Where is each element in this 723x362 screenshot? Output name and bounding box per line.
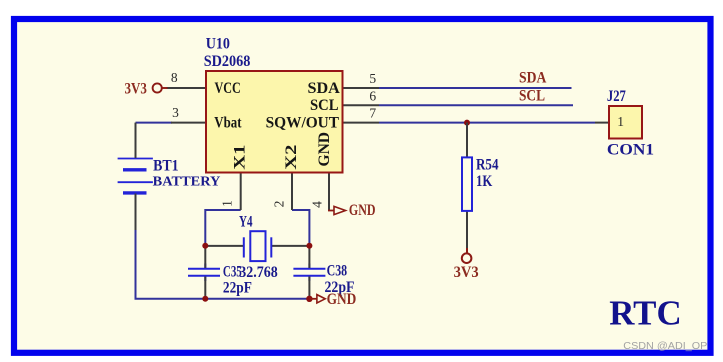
wire SCL horizontal bbox=[379, 104, 573, 106]
capacitor C38 pins bbox=[308, 246, 310, 268]
svg-text:SCL: SCL bbox=[519, 88, 545, 105]
svg-text:GND: GND bbox=[316, 132, 333, 167]
wire left rail to ground rail bbox=[136, 230, 310, 299]
svg-text:3: 3 bbox=[172, 105, 179, 120]
ground symbol (IC pin 4) bbox=[328, 210, 334, 212]
IC pin 2 stub bbox=[291, 173, 293, 210]
wire Vbat horizontal bbox=[136, 122, 173, 124]
svg-text:VCC: VCC bbox=[215, 80, 241, 97]
capacitor C35 pins bbox=[204, 246, 206, 268]
junction node rail right bbox=[306, 296, 312, 302]
svg-text:22pF: 22pF bbox=[223, 279, 252, 296]
IC pin 8 stub bbox=[167, 87, 207, 89]
wire X1 branch bbox=[205, 210, 240, 246]
power port 3V3 circle (left) bbox=[153, 83, 162, 92]
battery BT1 plates bbox=[118, 158, 153, 160]
battery pins bbox=[135, 123, 137, 158]
svg-text:C38: C38 bbox=[327, 263, 348, 280]
wire SDA horizontal bbox=[379, 87, 572, 89]
svg-text:R54: R54 bbox=[476, 156, 499, 173]
svg-text:GND: GND bbox=[349, 202, 376, 219]
ground symbol (bottom rail) bbox=[309, 298, 317, 300]
svg-text:BATTERY: BATTERY bbox=[153, 175, 221, 190]
IC pin 7 stub bbox=[343, 122, 379, 124]
svg-text:SDA: SDA bbox=[308, 80, 341, 97]
crystal Y4 body bbox=[250, 231, 265, 261]
svg-text:X1: X1 bbox=[231, 145, 248, 170]
svg-text:RTC: RTC bbox=[609, 293, 682, 332]
crystal Y4 leads bbox=[205, 245, 244, 247]
svg-text:CSDN @ADI_OP: CSDN @ADI_OP bbox=[623, 340, 707, 352]
svg-text:6: 6 bbox=[369, 89, 376, 104]
crystal Y4 plates bbox=[243, 237, 245, 257]
svg-text:1K: 1K bbox=[476, 173, 492, 190]
capacitor C35 pin tips (blue) bbox=[204, 264, 206, 269]
capacitor C38 plates bbox=[293, 268, 325, 270]
wire SQW/OUT horizontal bbox=[379, 122, 595, 124]
svg-text:2: 2 bbox=[272, 201, 287, 208]
svg-text:C35: C35 bbox=[223, 263, 242, 280]
svg-text:3V3: 3V3 bbox=[125, 80, 148, 97]
svg-text:7: 7 bbox=[369, 106, 376, 121]
connector J27 pin stub bbox=[595, 122, 609, 124]
svg-text:U10: U10 bbox=[206, 36, 231, 53]
svg-text:8: 8 bbox=[171, 70, 178, 85]
svg-text:CON1: CON1 bbox=[607, 142, 654, 159]
svg-text:X2: X2 bbox=[283, 145, 300, 170]
resistor R54 body bbox=[462, 157, 472, 211]
junction node rail left bbox=[202, 296, 208, 302]
junction node crystal right bbox=[306, 243, 312, 249]
svg-text:4: 4 bbox=[309, 201, 324, 208]
capacitor C35 plates bbox=[188, 268, 220, 270]
svg-text:1: 1 bbox=[220, 200, 235, 207]
svg-text:SQW/OUT: SQW/OUT bbox=[266, 114, 340, 131]
IC pin 6 stub bbox=[343, 104, 379, 106]
svg-text:J27: J27 bbox=[607, 88, 626, 105]
IC U10 body bbox=[206, 71, 343, 173]
IC pin 5 stub bbox=[343, 87, 379, 89]
svg-text:SCL: SCL bbox=[310, 97, 339, 114]
svg-text:GND: GND bbox=[327, 291, 357, 308]
svg-text:3V3: 3V3 bbox=[454, 264, 479, 281]
resistor R54 pins bbox=[466, 123, 468, 158]
capacitor C38 pin tips (blue) bbox=[308, 264, 310, 269]
junction node crystal left bbox=[202, 243, 208, 249]
IC pin 3 stub bbox=[171, 122, 206, 124]
svg-text:BT1: BT1 bbox=[153, 158, 179, 175]
svg-text:SDA: SDA bbox=[519, 69, 547, 86]
junction node SQW wire bbox=[464, 120, 470, 126]
svg-text:Vbat: Vbat bbox=[214, 114, 242, 131]
wire X2 branch bbox=[292, 210, 309, 246]
connector J27 body bbox=[609, 106, 642, 139]
svg-text:Y4: Y4 bbox=[239, 213, 253, 230]
power port 3V3 circle (under R54) bbox=[462, 253, 472, 263]
svg-text:SD2068: SD2068 bbox=[204, 53, 251, 70]
svg-text:1: 1 bbox=[617, 114, 624, 129]
IC pin 1 stub bbox=[240, 173, 242, 210]
svg-text:5: 5 bbox=[369, 71, 376, 86]
IC pin 4 stub bbox=[328, 173, 330, 211]
